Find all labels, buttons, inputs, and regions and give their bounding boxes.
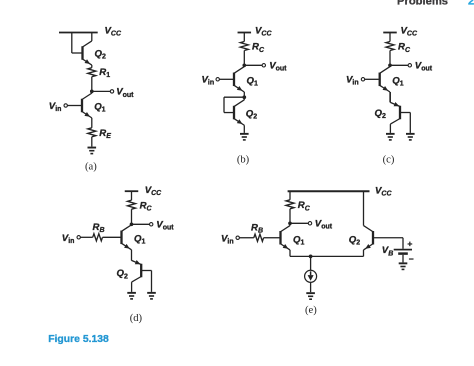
svg-text:VB: VB: [382, 245, 393, 257]
svg-text:(c): (c): [383, 154, 395, 165]
svg-text:Vout: Vout: [415, 61, 433, 73]
svg-text:Q2: Q2: [375, 108, 386, 120]
svg-text:Vin: Vin: [221, 233, 234, 245]
svg-text:RB: RB: [93, 222, 105, 234]
svg-text:RE: RE: [99, 128, 111, 140]
svg-text:VCC: VCC: [105, 26, 122, 38]
svg-text:Vout: Vout: [315, 219, 333, 231]
svg-text:R1: R1: [99, 67, 110, 79]
svg-text:(d): (d): [130, 313, 143, 324]
svg-text:Q2: Q2: [246, 108, 257, 120]
svg-text:RB: RB: [251, 222, 263, 234]
svg-text:Vout: Vout: [116, 87, 134, 99]
svg-text:Vin: Vin: [49, 101, 62, 113]
svg-text:Q1: Q1: [392, 76, 403, 88]
svg-text:RC: RC: [252, 42, 265, 54]
svg-text:(a): (a): [85, 162, 97, 173]
svg-text:Vout: Vout: [156, 220, 174, 232]
svg-text:−: −: [409, 254, 414, 264]
svg-text:Q1: Q1: [134, 234, 145, 246]
svg-text:Q1: Q1: [247, 76, 258, 88]
svg-text:Vout: Vout: [269, 61, 287, 73]
svg-text:Vin: Vin: [62, 233, 75, 245]
svg-text:VCC: VCC: [145, 185, 162, 197]
svg-text:VCC: VCC: [255, 26, 272, 38]
svg-text:VCC: VCC: [401, 26, 418, 38]
svg-text:Vin: Vin: [202, 75, 215, 87]
svg-text:Figure 5.138: Figure 5.138: [48, 334, 109, 345]
svg-text:VCC: VCC: [375, 185, 392, 197]
svg-text:Q2: Q2: [95, 49, 106, 61]
svg-text:Q1: Q1: [293, 234, 304, 246]
svg-text:Q2: Q2: [117, 268, 128, 280]
svg-text:+: +: [407, 238, 412, 248]
svg-text:Q1: Q1: [94, 101, 105, 113]
svg-text:(b): (b): [237, 154, 250, 165]
svg-text:(e): (e): [305, 305, 317, 316]
svg-text:RC: RC: [398, 42, 411, 54]
svg-text:RC: RC: [140, 201, 153, 213]
svg-text:24: 24: [468, 0, 474, 7]
svg-text:RC: RC: [298, 200, 311, 212]
svg-text:Problems: Problems: [397, 0, 448, 7]
svg-text:Vin: Vin: [346, 75, 359, 87]
svg-text:Q2: Q2: [349, 234, 360, 246]
